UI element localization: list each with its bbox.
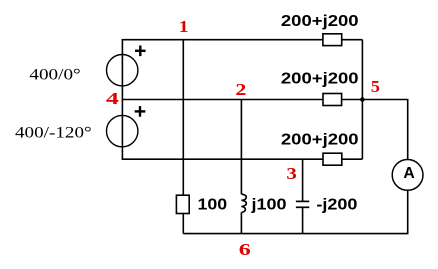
- svg-text:j100: j100: [250, 196, 286, 213]
- voltage source U2 plus sign: [135, 106, 146, 117]
- svg-text:200+j200: 200+j200: [281, 13, 359, 30]
- voltage source U2 circle: [107, 115, 138, 146]
- wire bottom: [183, 233, 408, 235]
- svg-text:-j200: -j200: [316, 196, 357, 213]
- wire row2 right to ammeter branch: [362, 99, 408, 101]
- svg-text:3: 3: [286, 164, 297, 183]
- wire node5 vertical: [361, 40, 363, 160]
- resistor Z2 box: [323, 94, 342, 106]
- inductor L1 coil: [241, 194, 246, 212]
- svg-text:2: 2: [235, 80, 246, 99]
- svg-text:100: 100: [198, 197, 228, 214]
- wire node2 vertical upper: [240, 100, 242, 195]
- wire node3 vertical upper: [302, 159, 304, 201]
- junction node 5 dot: [360, 97, 365, 102]
- ammeter A1 circle: [392, 160, 423, 191]
- wire right vertical upper: [407, 100, 409, 160]
- voltage source U1 plus sign: [135, 46, 146, 57]
- svg-text:1: 1: [179, 17, 189, 36]
- wire left vertical through sources: [121, 40, 123, 160]
- svg-text:400/0°: 400/0°: [29, 67, 80, 84]
- wire right vertical lower: [407, 190, 409, 233]
- resistor Z1 box: [323, 34, 342, 46]
- wire row3: [122, 158, 363, 160]
- resistor Z3 box: [323, 153, 342, 165]
- wire row1 top: [122, 39, 363, 41]
- svg-text:200+j200: 200+j200: [281, 131, 359, 148]
- capacitor C1 plates: [296, 201, 309, 207]
- svg-text:A: A: [403, 165, 414, 182]
- wire row2 middle: [122, 99, 363, 101]
- svg-text:6: 6: [239, 240, 251, 259]
- voltage source U1 circle: [107, 54, 138, 85]
- svg-text:400/-120°: 400/-120°: [15, 124, 92, 141]
- svg-text:200+j200: 200+j200: [281, 70, 359, 87]
- resistor R1 100 box: [176, 195, 189, 213]
- wire node3 vertical lower: [302, 207, 304, 233]
- svg-text:5: 5: [371, 77, 380, 96]
- wire node2 vertical lower: [240, 212, 242, 233]
- wire node1 vertical: [182, 40, 184, 234]
- svg-text:4: 4: [106, 89, 120, 108]
